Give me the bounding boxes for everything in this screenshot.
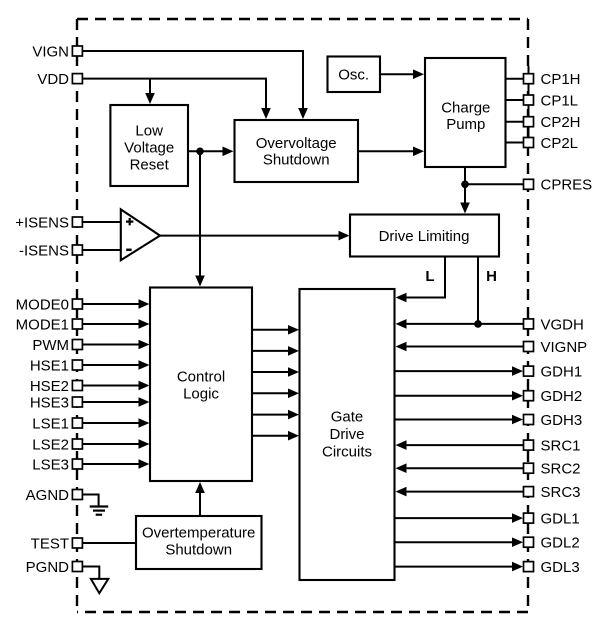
wire PGND stub	[82, 567, 99, 579]
wire Control Logic to Gate Drive 2	[252, 350, 290, 352]
wire TEST to Overtemperature Shutdown	[82, 542, 136, 544]
wire GDH2 output	[395, 395, 514, 397]
node junction H/VGDH	[474, 320, 482, 328]
block Drive Limiting	[350, 215, 499, 257]
svg-text:CP1H: CP1H	[541, 71, 581, 88]
node junction at LVR output	[196, 148, 204, 156]
svg-text:L: L	[425, 268, 434, 285]
wire node to CPRES pin	[465, 183, 524, 185]
pin VDD	[37, 71, 82, 88]
pin GDL1	[524, 511, 580, 528]
wire CP2H	[506, 121, 524, 123]
svg-text:-ISENS: -ISENS	[19, 242, 69, 259]
svg-text:LSE1: LSE1	[32, 415, 69, 432]
svg-text:Shutdown: Shutdown	[165, 541, 232, 558]
wire LVR junction down to Control Logic	[199, 151, 201, 278]
svg-text:CP2H: CP2H	[541, 114, 581, 131]
pin -ISENS	[19, 242, 82, 259]
pin HSE2	[30, 378, 83, 395]
svg-text:CPRES: CPRES	[541, 177, 593, 194]
pin HSE3	[30, 394, 83, 411]
wire GDL3 output	[395, 566, 514, 568]
ground AGND	[90, 507, 109, 515]
svg-text:PGND: PGND	[26, 559, 70, 576]
pin AGND	[26, 487, 83, 504]
pin VIGN	[32, 43, 82, 60]
pin GDH3	[524, 412, 583, 429]
svg-text:TEST: TEST	[31, 535, 69, 552]
svg-text:Drive Limiting: Drive Limiting	[379, 228, 470, 245]
pin GDL2	[524, 535, 580, 552]
wire +ISENS to comparator	[82, 221, 120, 223]
block Gate Drive Circuits	[300, 289, 395, 580]
svg-text:SRC3: SRC3	[541, 484, 581, 501]
svg-text:Drive: Drive	[329, 426, 364, 443]
wire LSE1 to Control Logic	[82, 422, 140, 424]
pin GDH1	[524, 364, 583, 381]
svg-text:VDD: VDD	[37, 71, 69, 88]
svg-text:LSE3: LSE3	[32, 456, 69, 473]
wire SRC3 input	[405, 491, 524, 493]
ground PGND (open triangle)	[91, 579, 108, 593]
svg-text:Circuits: Circuits	[322, 444, 372, 461]
wire VDD trunk	[82, 79, 266, 110]
wire SRC1 input	[405, 444, 524, 446]
wire Drive Limiting H output down	[477, 257, 479, 324]
pin PWM	[32, 337, 82, 354]
pin CP1H	[524, 71, 581, 88]
wire LSE3 to Control Logic	[82, 463, 140, 465]
wire HSE2 to Control Logic	[82, 385, 140, 387]
svg-text:Logic: Logic	[183, 386, 219, 403]
svg-text:Voltage: Voltage	[124, 139, 174, 156]
svg-text:MODE0: MODE0	[16, 296, 69, 313]
svg-text:SRC1: SRC1	[541, 438, 581, 455]
block Charge Pump	[425, 58, 506, 167]
wire PWM to Control Logic	[82, 344, 140, 346]
wire -ISENS to comparator	[82, 249, 120, 251]
svg-text:H: H	[486, 268, 497, 285]
wire HSE1 to Control Logic	[82, 364, 140, 366]
pin LSE2	[32, 436, 82, 453]
wire Control Logic to Gate Drive 4	[252, 392, 290, 394]
pin VGDH	[524, 316, 584, 333]
pin SRC1	[524, 438, 581, 455]
svg-text:AGND: AGND	[26, 487, 70, 504]
svg-text:Gate: Gate	[331, 409, 364, 426]
wire CP2L	[506, 142, 524, 144]
wire AGND stub	[82, 495, 98, 506]
wire GDL1 output	[395, 517, 514, 519]
wire GDL2 output	[395, 541, 514, 543]
svg-text:GDH1: GDH1	[541, 364, 583, 381]
svg-text:MODE1: MODE1	[16, 316, 69, 333]
svg-text:Overtemperature: Overtemperature	[142, 524, 255, 541]
wire node down to Drive Limiting	[464, 184, 466, 205]
svg-text:HSE1: HSE1	[30, 357, 69, 374]
block Control Logic	[150, 288, 252, 482]
pin +ISENS	[15, 214, 82, 231]
svg-text:PWM: PWM	[32, 337, 69, 354]
wire comparator output to Drive Limiting	[159, 235, 340, 237]
svg-text:Control: Control	[177, 369, 225, 386]
wire connector along CP pin column	[528, 66, 530, 146]
wire LVR output to Overvoltage Shutdown	[188, 150, 224, 152]
dashed IC boundary	[77, 19, 528, 612]
svg-text:VGDH: VGDH	[541, 316, 584, 333]
wire VDD branch to Low Voltage Reset	[149, 79, 151, 95]
wire Osc to Charge Pump	[380, 73, 414, 75]
svg-text:Reset: Reset	[130, 156, 170, 173]
wire Control Logic to Gate Drive 1	[252, 329, 290, 331]
wire Control Logic to Gate Drive 3	[252, 371, 290, 373]
svg-text:GDH2: GDH2	[541, 388, 583, 405]
wire LSE2 to Control Logic	[82, 443, 140, 445]
wire SRC2 input	[405, 467, 524, 469]
svg-text:GDH3: GDH3	[541, 412, 583, 429]
pin CPRES	[524, 177, 593, 194]
svg-text:Osc.: Osc.	[338, 67, 369, 84]
pin TEST	[31, 535, 83, 552]
svg-text:Low: Low	[135, 122, 163, 139]
pin CP2L	[524, 135, 579, 152]
svg-text:HSE2: HSE2	[30, 378, 69, 395]
svg-text:Shutdown: Shutdown	[263, 152, 330, 169]
svg-text:Pump: Pump	[446, 116, 485, 133]
svg-text:Charge: Charge	[441, 99, 490, 116]
block Low Voltage Reset U1	[110, 105, 188, 186]
pin MODE0	[16, 296, 83, 313]
wire VIGNP into Gate Drive	[405, 346, 524, 348]
svg-text:GDL2: GDL2	[541, 535, 580, 552]
block Osc	[328, 57, 381, 93]
pin SRC3	[524, 484, 581, 501]
wire GDH3 output	[395, 419, 514, 421]
svg-text:SRC2: SRC2	[541, 461, 581, 478]
wire GDH1 output	[395, 370, 514, 372]
pin SRC2	[524, 461, 581, 478]
svg-text:Overvoltage: Overvoltage	[256, 135, 337, 152]
pin VIGNP	[524, 339, 588, 356]
wire Control Logic to Gate Drive 6	[252, 435, 290, 437]
wire Control Logic to Gate Drive 5	[252, 414, 290, 416]
node junction CPRES	[461, 181, 469, 189]
pin MODE1	[16, 316, 83, 333]
block Overtemperature Shutdown	[136, 516, 262, 569]
pin CP2H	[524, 114, 581, 131]
svg-text:VIGNP: VIGNP	[541, 339, 588, 356]
svg-text:LSE2: LSE2	[32, 436, 69, 453]
wire OVS output to Charge Pump	[358, 150, 414, 152]
wire VGDH into Gate Drive	[405, 323, 524, 325]
svg-text:+ISENS: +ISENS	[15, 214, 69, 231]
wire MODE0 to Control Logic	[82, 303, 140, 305]
block Overvoltage Shutdown	[235, 120, 359, 182]
pin GDL3	[524, 559, 580, 576]
svg-text:GDL3: GDL3	[541, 559, 580, 576]
pin LSE3	[32, 456, 82, 473]
pin LSE1	[32, 415, 82, 432]
svg-text:CP1L: CP1L	[541, 92, 579, 109]
op-amp comparator	[121, 209, 160, 260]
wire VIGN to Overvoltage Shutdown	[82, 51, 303, 110]
wire MODE1 to Control Logic	[82, 323, 140, 325]
svg-text:GDL1: GDL1	[541, 511, 580, 528]
pin GDH2	[524, 388, 583, 405]
wire HSE3 to Control Logic	[82, 401, 140, 403]
wire CP1L	[506, 99, 524, 101]
pin HSE1	[30, 357, 83, 374]
pin PGND	[26, 559, 83, 576]
wire Drive Limiting L output	[405, 257, 445, 298]
svg-text:CP2L: CP2L	[541, 135, 579, 152]
wire CP1H	[506, 78, 524, 80]
pin CP1L	[524, 92, 579, 109]
wire Overtemperature Shutdown up to Control Logic	[199, 492, 201, 516]
wire Charge Pump bottom to CPRES node	[464, 167, 466, 184]
svg-text:VIGN: VIGN	[32, 43, 69, 60]
svg-text:HSE3: HSE3	[30, 394, 69, 411]
